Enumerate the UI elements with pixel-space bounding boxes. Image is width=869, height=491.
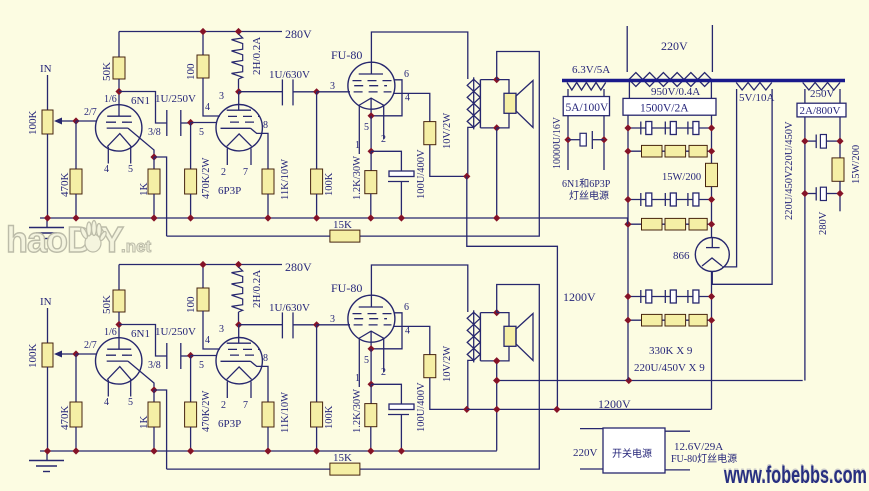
wire 470K to ground bus B — [75, 427, 77, 451]
wire cathode down A — [370, 116, 372, 152]
wire speaker return A — [496, 128, 498, 218]
tube FU-80 A screen grid — [353, 80, 392, 82]
wire 950V to HV fuse box — [628, 82, 630, 98]
svg-text:1K: 1K — [138, 416, 150, 430]
node FU-80 grid junction B — [313, 321, 320, 328]
svg-text:7: 7 — [243, 400, 248, 411]
resistor 470K/2W B — [185, 402, 197, 427]
svg-text:220U/450V: 220U/450V — [784, 170, 795, 220]
wire rail to 50K A — [118, 32, 120, 58]
svg-text:220U/450V: 220U/450V — [784, 121, 795, 171]
svg-text:6P3P: 6P3P — [218, 418, 241, 430]
resistor 10V/2W B — [424, 355, 436, 378]
node 220U/450V top junctions — [801, 138, 808, 145]
transformer TB primary bottom wire — [468, 360, 474, 409]
wire cathode junction to 1K top B — [153, 390, 155, 402]
capacitor bank row 5 caps — [640, 290, 642, 303]
svg-text:280V: 280V — [285, 260, 312, 274]
svg-text:2H/0.2A: 2H/0.2A — [251, 37, 263, 75]
svg-text:470K: 470K — [59, 406, 71, 431]
tube 6N1 B grid — [106, 354, 138, 356]
svg-text:5A/100V: 5A/100V — [566, 102, 610, 114]
wire 6N1 cathode to 1K B — [128, 361, 154, 390]
node 6P3P plate junction B — [235, 321, 242, 328]
wire switching supply outputs — [665, 430, 690, 432]
svg-text:5: 5 — [364, 122, 369, 133]
svg-text:100: 100 — [185, 63, 197, 80]
node B+ junction A — [463, 173, 470, 180]
wire bank right rail mid — [711, 187, 713, 238]
node rail junction at choke A — [235, 28, 242, 35]
svg-text:www.fobebbs.com: www.fobebbs.com — [723, 462, 867, 486]
tube 6P3P A envelope — [216, 105, 262, 151]
svg-text:4: 4 — [405, 93, 410, 104]
wire feedback from speaker A — [360, 52, 539, 237]
wire 100K to ground bus B — [316, 427, 318, 451]
wire ground bus B — [40, 450, 497, 452]
capacitor bank row 3 caps — [640, 193, 642, 206]
resistor bank row 2 resistors — [642, 145, 663, 157]
wire 50K to 6N1 plate A — [118, 79, 120, 116]
capacitor 1U/250V A plates — [166, 110, 168, 136]
wire cathode down B — [370, 349, 372, 385]
tube 6N1 A heater — [107, 134, 131, 147]
svg-text:470K/2W: 470K/2W — [201, 391, 212, 433]
speaker LSB body — [504, 326, 516, 346]
tube FU-80 B suppressor grid — [354, 318, 387, 320]
wire bank right rail lower — [711, 272, 713, 410]
wire 866 filament right to 5V — [722, 89, 737, 267]
node FU-80 grid junction A — [313, 88, 320, 95]
watermark haoDIY.net — [6, 219, 152, 260]
tube 6P3P A cathode — [221, 127, 251, 129]
capacitor 1U/250V coupling A wiring — [119, 92, 167, 124]
wire 470K/2W to ground bus A — [190, 194, 192, 218]
capacitor 100U/400V A — [389, 171, 414, 177]
resistor bank row 4 wiring — [628, 223, 712, 225]
svg-text:12.6V/29A: 12.6V/29A — [674, 441, 723, 453]
node rail junction at 100 ohm A — [199, 28, 206, 35]
svg-text:10V/2W: 10V/2W — [442, 113, 453, 149]
tube FU-80 B cathode heater — [359, 331, 384, 338]
svg-text:50K: 50K — [101, 295, 113, 314]
wire rail to 50K B — [118, 265, 120, 291]
svg-text:15W/200: 15W/200 — [662, 172, 701, 183]
svg-text:4: 4 — [104, 397, 109, 408]
tube 6P3P B plate — [238, 325, 240, 344]
node bus junctions A — [44, 214, 51, 221]
resistor bank row 4 resistors — [642, 218, 663, 230]
wire cathode to feedback tap A — [154, 157, 167, 236]
wire channel A B+ feed path — [467, 176, 558, 409]
resistor 11K/10W B — [262, 402, 274, 427]
wire mains stubs to switching supply — [580, 428, 603, 430]
svg-text:4: 4 — [205, 102, 210, 113]
tube 6N1 A plate — [107, 115, 131, 117]
node speaker bottom junction B — [493, 357, 500, 364]
svg-text:100K: 100K — [324, 172, 335, 196]
svg-text:.net: .net — [121, 237, 152, 256]
capacitor bank row 1 junctions — [624, 124, 631, 131]
wire 280V supply rail A — [119, 31, 282, 33]
node 6P3P grid junction A — [187, 119, 194, 126]
wire 470K to ground bus A — [75, 194, 77, 218]
wire 220V primary lead left — [626, 26, 628, 72]
svg-text:6: 6 — [404, 69, 409, 80]
tube 6N1 B cathode — [107, 360, 128, 362]
capacitor 1U/250V B plates — [166, 343, 168, 369]
svg-text:2H/0.2A: 2H/0.2A — [251, 270, 263, 308]
svg-text:220V: 220V — [573, 447, 598, 459]
wire feedback to cathode B — [167, 468, 330, 470]
resistor 1.2K/30W B — [365, 404, 377, 427]
wire choke to 6P3P plate B — [238, 312, 240, 325]
svg-text:1200V: 1200V — [598, 397, 631, 411]
fuse box 5A/100V — [563, 97, 609, 116]
svg-text:11K/10W: 11K/10W — [280, 392, 291, 433]
svg-text:280V: 280V — [818, 211, 829, 235]
svg-text:100K: 100K — [27, 111, 39, 136]
wire grid junction to 6P3P A — [191, 122, 217, 124]
tube 6N1 A envelope — [96, 105, 142, 151]
tube 6N1 B heater — [107, 367, 131, 380]
wire 100 ohm to 6P3P pin 4 A — [203, 78, 220, 116]
resistor bank row 6 resistors — [642, 314, 663, 326]
svg-text:100U/400V: 100U/400V — [416, 149, 427, 199]
svg-text:6: 6 — [404, 302, 409, 313]
capacitor 220U/450V bottom — [805, 193, 816, 195]
capacitor 220U/450V top — [805, 140, 816, 142]
svg-text:1U/250V: 1U/250V — [155, 326, 196, 338]
svg-text:5: 5 — [128, 164, 133, 175]
wire right rail lower — [839, 181, 841, 211]
node 220U/450V bottom junctions — [801, 190, 808, 197]
transformer TA primary winding — [467, 79, 480, 127]
svg-text:6N1和6P3P: 6N1和6P3P — [562, 178, 611, 190]
capacitor bank row 1 wiring — [628, 127, 712, 129]
svg-text:4: 4 — [104, 164, 109, 175]
tube 6P3P A screen grid — [228, 115, 260, 117]
resistor bank row 4 junctions — [624, 221, 631, 228]
capacitor 1U/250V coupling B wiring — [119, 325, 167, 357]
svg-text:470K: 470K — [59, 173, 71, 198]
transformer mains primary winding — [629, 73, 712, 87]
node 1200V junction ch2 primary — [493, 406, 500, 413]
capacitor 10000U/16V — [568, 139, 580, 141]
resistor 100K grid leak B — [311, 402, 323, 427]
svg-text:950V/0.4A: 950V/0.4A — [651, 86, 700, 98]
wire FU-80 pin 6 A — [371, 80, 402, 116]
svg-text:IN: IN — [40, 63, 52, 75]
svg-text:100: 100 — [185, 296, 197, 313]
svg-text:5: 5 — [128, 397, 133, 408]
svg-text:8: 8 — [263, 120, 268, 131]
svg-text:100K: 100K — [324, 405, 335, 429]
wire junction to 1.2K/30W A — [370, 151, 372, 170]
svg-text:4: 4 — [405, 326, 410, 337]
wire feedback from speaker B — [360, 285, 539, 470]
capacitor bank row 3 junctions — [624, 196, 631, 203]
wire ground bus jog to bank rail — [627, 218, 629, 224]
transformer TA secondary taps — [480, 79, 496, 81]
wire junction to 1.2K/30W B — [370, 384, 372, 403]
svg-text:1500V/2A: 1500V/2A — [640, 103, 689, 115]
transformer core bus — [562, 79, 845, 83]
svg-text:3: 3 — [219, 324, 224, 335]
svg-text:10000U/16V: 10000U/16V — [552, 116, 563, 169]
svg-text:1/6: 1/6 — [104, 327, 117, 338]
speaker LSA body — [504, 93, 516, 113]
wire 280V supply rail B — [119, 264, 282, 266]
wire FU-80 cathode B — [370, 331, 372, 349]
resistor 1K B — [148, 402, 160, 427]
tube 866 internals — [711, 238, 713, 248]
resistor 11K/10W A — [262, 169, 274, 194]
resistor bank row 6 wiring — [628, 319, 712, 321]
resistor bank row 2 junctions — [624, 148, 631, 155]
transformer TB secondary bar — [479, 313, 481, 361]
node cathode RC junction B — [368, 381, 375, 388]
node cathode junction A — [150, 153, 157, 160]
tube FU-80 A control grid — [354, 91, 392, 93]
node FU-80 cathode junction B — [368, 345, 375, 352]
node B+ junction B — [463, 406, 470, 413]
tube 6P3P A heater stubs — [226, 149, 228, 166]
node speaker bottom junction A — [493, 124, 500, 131]
tube 6P3P A heater — [227, 134, 252, 147]
resistor 15K feedback A — [330, 230, 360, 242]
node FU-80 cathode junction A — [368, 112, 375, 119]
svg-text:开关电源: 开关电源 — [612, 447, 652, 460]
capacitor bank row 3 wiring — [628, 199, 712, 201]
wire 1200V rail — [467, 408, 712, 410]
svg-text:FU-80: FU-80 — [331, 48, 362, 62]
svg-text:1U/250V: 1U/250V — [155, 93, 196, 105]
node 6N1 plate junction B — [115, 321, 122, 328]
winding 250V — [803, 83, 840, 91]
wire bank left rail — [627, 115, 629, 380]
svg-text:7: 7 — [243, 167, 248, 178]
node 6N1 plate junction A — [115, 88, 122, 95]
inductor 2H/0.2A A — [232, 34, 243, 79]
svg-text:6N1: 6N1 — [131, 328, 150, 340]
resistor 1K A — [148, 169, 160, 194]
svg-text:15K: 15K — [333, 452, 352, 464]
resistor 15W/200 right — [832, 158, 844, 181]
capacitor 1U/630V A plates — [281, 79, 283, 105]
svg-text:1U/630V: 1U/630V — [269, 69, 310, 81]
resistor 15K feedback B — [330, 463, 360, 475]
wire junction to bypass cap B — [371, 384, 401, 404]
wire FU-80 cathode A — [370, 98, 372, 116]
node 1200V junction feed A — [553, 406, 560, 413]
tube 6N1 B envelope — [96, 338, 142, 384]
wire wiper to 6N1 grid A — [76, 120, 97, 122]
svg-text:100K: 100K — [27, 344, 39, 369]
wire 10V/2W to B+ node A — [430, 145, 467, 177]
svg-text:haoD: haoD — [6, 219, 92, 260]
tube 866 envelope — [695, 238, 729, 272]
wire 1.2K/30W to ground bus B — [370, 427, 372, 451]
capacitor 1U/630V A wiring — [239, 91, 283, 93]
wire input lead INB — [47, 308, 49, 343]
svg-text:10V/2W: 10V/2W — [442, 346, 453, 382]
transformer TB secondary taps — [480, 312, 496, 314]
node grid junction B — [72, 350, 79, 357]
fuse box 2A/800V — [797, 103, 846, 117]
node speaker top junction A — [493, 76, 500, 83]
node cathode RC junction A — [368, 148, 375, 155]
node rail junction at 100 ohm B — [199, 261, 206, 268]
wire 11K/10W to ground bus A — [267, 194, 269, 218]
tube FU-80 B screen grid — [353, 313, 392, 315]
svg-text:2A/800V: 2A/800V — [800, 105, 841, 117]
resistor 470K A — [70, 169, 82, 194]
winding 6.3V/5A — [567, 83, 606, 91]
wire input lead INA — [47, 75, 49, 110]
resistor 470K B — [70, 402, 82, 427]
transformer TA secondary bar — [479, 80, 481, 128]
wire 6P3P cathode pin 8 to 11K/10W B — [251, 361, 269, 402]
transformer TB primary winding — [467, 312, 480, 360]
svg-text:5: 5 — [364, 355, 369, 366]
capacitor 1U/630V B wiring — [239, 324, 283, 326]
wire 220V primary lead right — [711, 25, 713, 72]
svg-text:5: 5 — [199, 360, 204, 371]
resistor 1.2K/30W A — [365, 171, 377, 194]
wire pot bottom to ground bus B — [47, 367, 49, 451]
resistor 470K/2W A — [185, 169, 197, 194]
wire pot bottom to ground bus A — [47, 134, 49, 218]
wire FU-80 plate to rail A — [371, 32, 467, 79]
inductor 2H/0.2A B — [232, 267, 243, 312]
resistor 10V/2W A — [424, 122, 436, 145]
wire feedback to cathode A — [167, 235, 330, 237]
wire grid junction down to 470K/2W A — [190, 123, 192, 170]
tube FU-80 A heater stubs pins 1 2 — [358, 106, 360, 155]
svg-text:1/6: 1/6 — [104, 94, 117, 105]
wire junction down to R 470K B — [75, 354, 77, 402]
svg-text:11K/10W: 11K/10W — [280, 159, 291, 200]
wire junction down to R 470K A — [75, 121, 77, 169]
fuse box 1500V/2A — [623, 98, 716, 115]
svg-text:FU-80: FU-80 — [331, 281, 362, 295]
ground symbol A — [29, 227, 64, 229]
tube 6N1 B heater pin stubs — [107, 380, 109, 397]
wire grid junction to FU-80 B — [317, 324, 350, 326]
svg-text:3/8: 3/8 — [148, 127, 161, 138]
node 6P3P plate junction A — [235, 88, 242, 95]
capacitor bank row 5 junctions — [624, 293, 631, 300]
wire 250V to fuse box — [804, 89, 806, 103]
wire 1K to ground bus A — [153, 194, 155, 218]
wire FU-80 pin 4 to 10V/2W B — [393, 326, 430, 354]
wire rail to 100 ohm A — [202, 32, 204, 56]
resistor bank row 2 wiring — [628, 150, 712, 152]
node return junction speaker drop — [493, 377, 500, 384]
svg-text:866: 866 — [673, 250, 690, 262]
wire FU-80 pin 4 to 10V/2W A — [393, 93, 430, 121]
wire grid junction down to 470K/2W B — [190, 356, 192, 403]
wire cathode junction to 1K top A — [153, 157, 155, 169]
svg-text:250V: 250V — [810, 88, 835, 100]
resistor 15W/200 bank series — [706, 163, 718, 186]
svg-text:3/8: 3/8 — [148, 360, 161, 371]
tube 6P3P B heater stubs — [226, 382, 228, 399]
wire 100K to ground bus A — [316, 194, 318, 218]
svg-text:280V: 280V — [285, 27, 312, 41]
wire 50K to 6N1 plate B — [118, 312, 120, 349]
tube 6N1 B plate — [107, 348, 131, 350]
svg-text:1.2K/30W: 1.2K/30W — [352, 389, 363, 433]
svg-text:3: 3 — [330, 314, 335, 325]
node speaker top junction B — [493, 309, 500, 316]
tube 6N1 A cathode — [107, 127, 128, 129]
tube 6P3P B screen grid — [228, 348, 260, 350]
tube 6N1 A grid — [106, 121, 138, 123]
wire 11K/10W to ground bus B — [267, 427, 269, 451]
capacitor bank row 1 caps — [640, 122, 642, 135]
tube 6P3P B cathode — [221, 360, 251, 362]
svg-text:IN: IN — [40, 296, 52, 308]
resistor bank row 6 junctions — [624, 317, 631, 324]
resistor 50K B — [113, 290, 125, 312]
svg-text:3: 3 — [330, 81, 335, 92]
svg-text:220V: 220V — [661, 39, 688, 53]
wire 6.3V to fuse box — [567, 89, 569, 97]
svg-text:220U/450V X 9: 220U/450V X 9 — [634, 362, 705, 374]
wire 6.3V feed down right — [603, 116, 605, 170]
wire 10V/2W to B+ node B — [430, 378, 467, 410]
svg-text:2/7: 2/7 — [84, 107, 97, 118]
node filament cap right — [600, 136, 607, 143]
wire grid junction to 6P3P B — [191, 355, 217, 357]
tube 6P3P B envelope — [216, 338, 262, 384]
wire 1.2K/30W to ground bus A — [370, 194, 372, 218]
svg-text:15W/200: 15W/200 — [851, 145, 862, 184]
node cathode junction B — [150, 386, 157, 393]
resistor 100K grid leak A — [311, 169, 323, 194]
svg-text:100U/400V: 100U/400V — [416, 382, 427, 432]
wire grid junction to FU-80 A — [317, 91, 350, 93]
svg-text:470K/2W: 470K/2W — [201, 158, 212, 200]
node return junction bank rail — [625, 377, 632, 384]
switching supply box — [603, 428, 665, 473]
wire grid junction down to 100K B — [316, 325, 318, 402]
potentiometer VRA wiper arrow — [61, 120, 76, 122]
svg-text:2/7: 2/7 — [84, 340, 97, 351]
wire wiper to 6N1 grid B — [76, 353, 97, 355]
svg-text:1200V: 1200V — [563, 290, 596, 304]
speaker LSA wiring — [497, 80, 509, 94]
wire 6P3P cathode pin 8 to 11K/10W A — [251, 128, 269, 169]
tube FU-80 B control grid — [354, 324, 392, 326]
tube FU-80 A envelope — [348, 62, 395, 109]
resistor 100 B — [197, 288, 209, 311]
tube FU-80 A suppressor grid — [354, 85, 387, 87]
node rail junction at choke B — [235, 261, 242, 268]
capacitor 1U/630V B plates — [281, 312, 283, 338]
resistor 100 A — [197, 55, 209, 78]
resistor 50K A — [113, 57, 125, 79]
tube FU-80 B plate — [370, 295, 372, 307]
capacitor 100U/400V B — [389, 404, 414, 410]
wire rail to 100 ohm B — [202, 265, 204, 289]
wire 250V left rail — [804, 117, 806, 381]
svg-text:2: 2 — [221, 167, 226, 178]
wire 470K/2W to ground bus B — [190, 427, 192, 451]
potentiometer VRA 100K body — [42, 110, 53, 134]
